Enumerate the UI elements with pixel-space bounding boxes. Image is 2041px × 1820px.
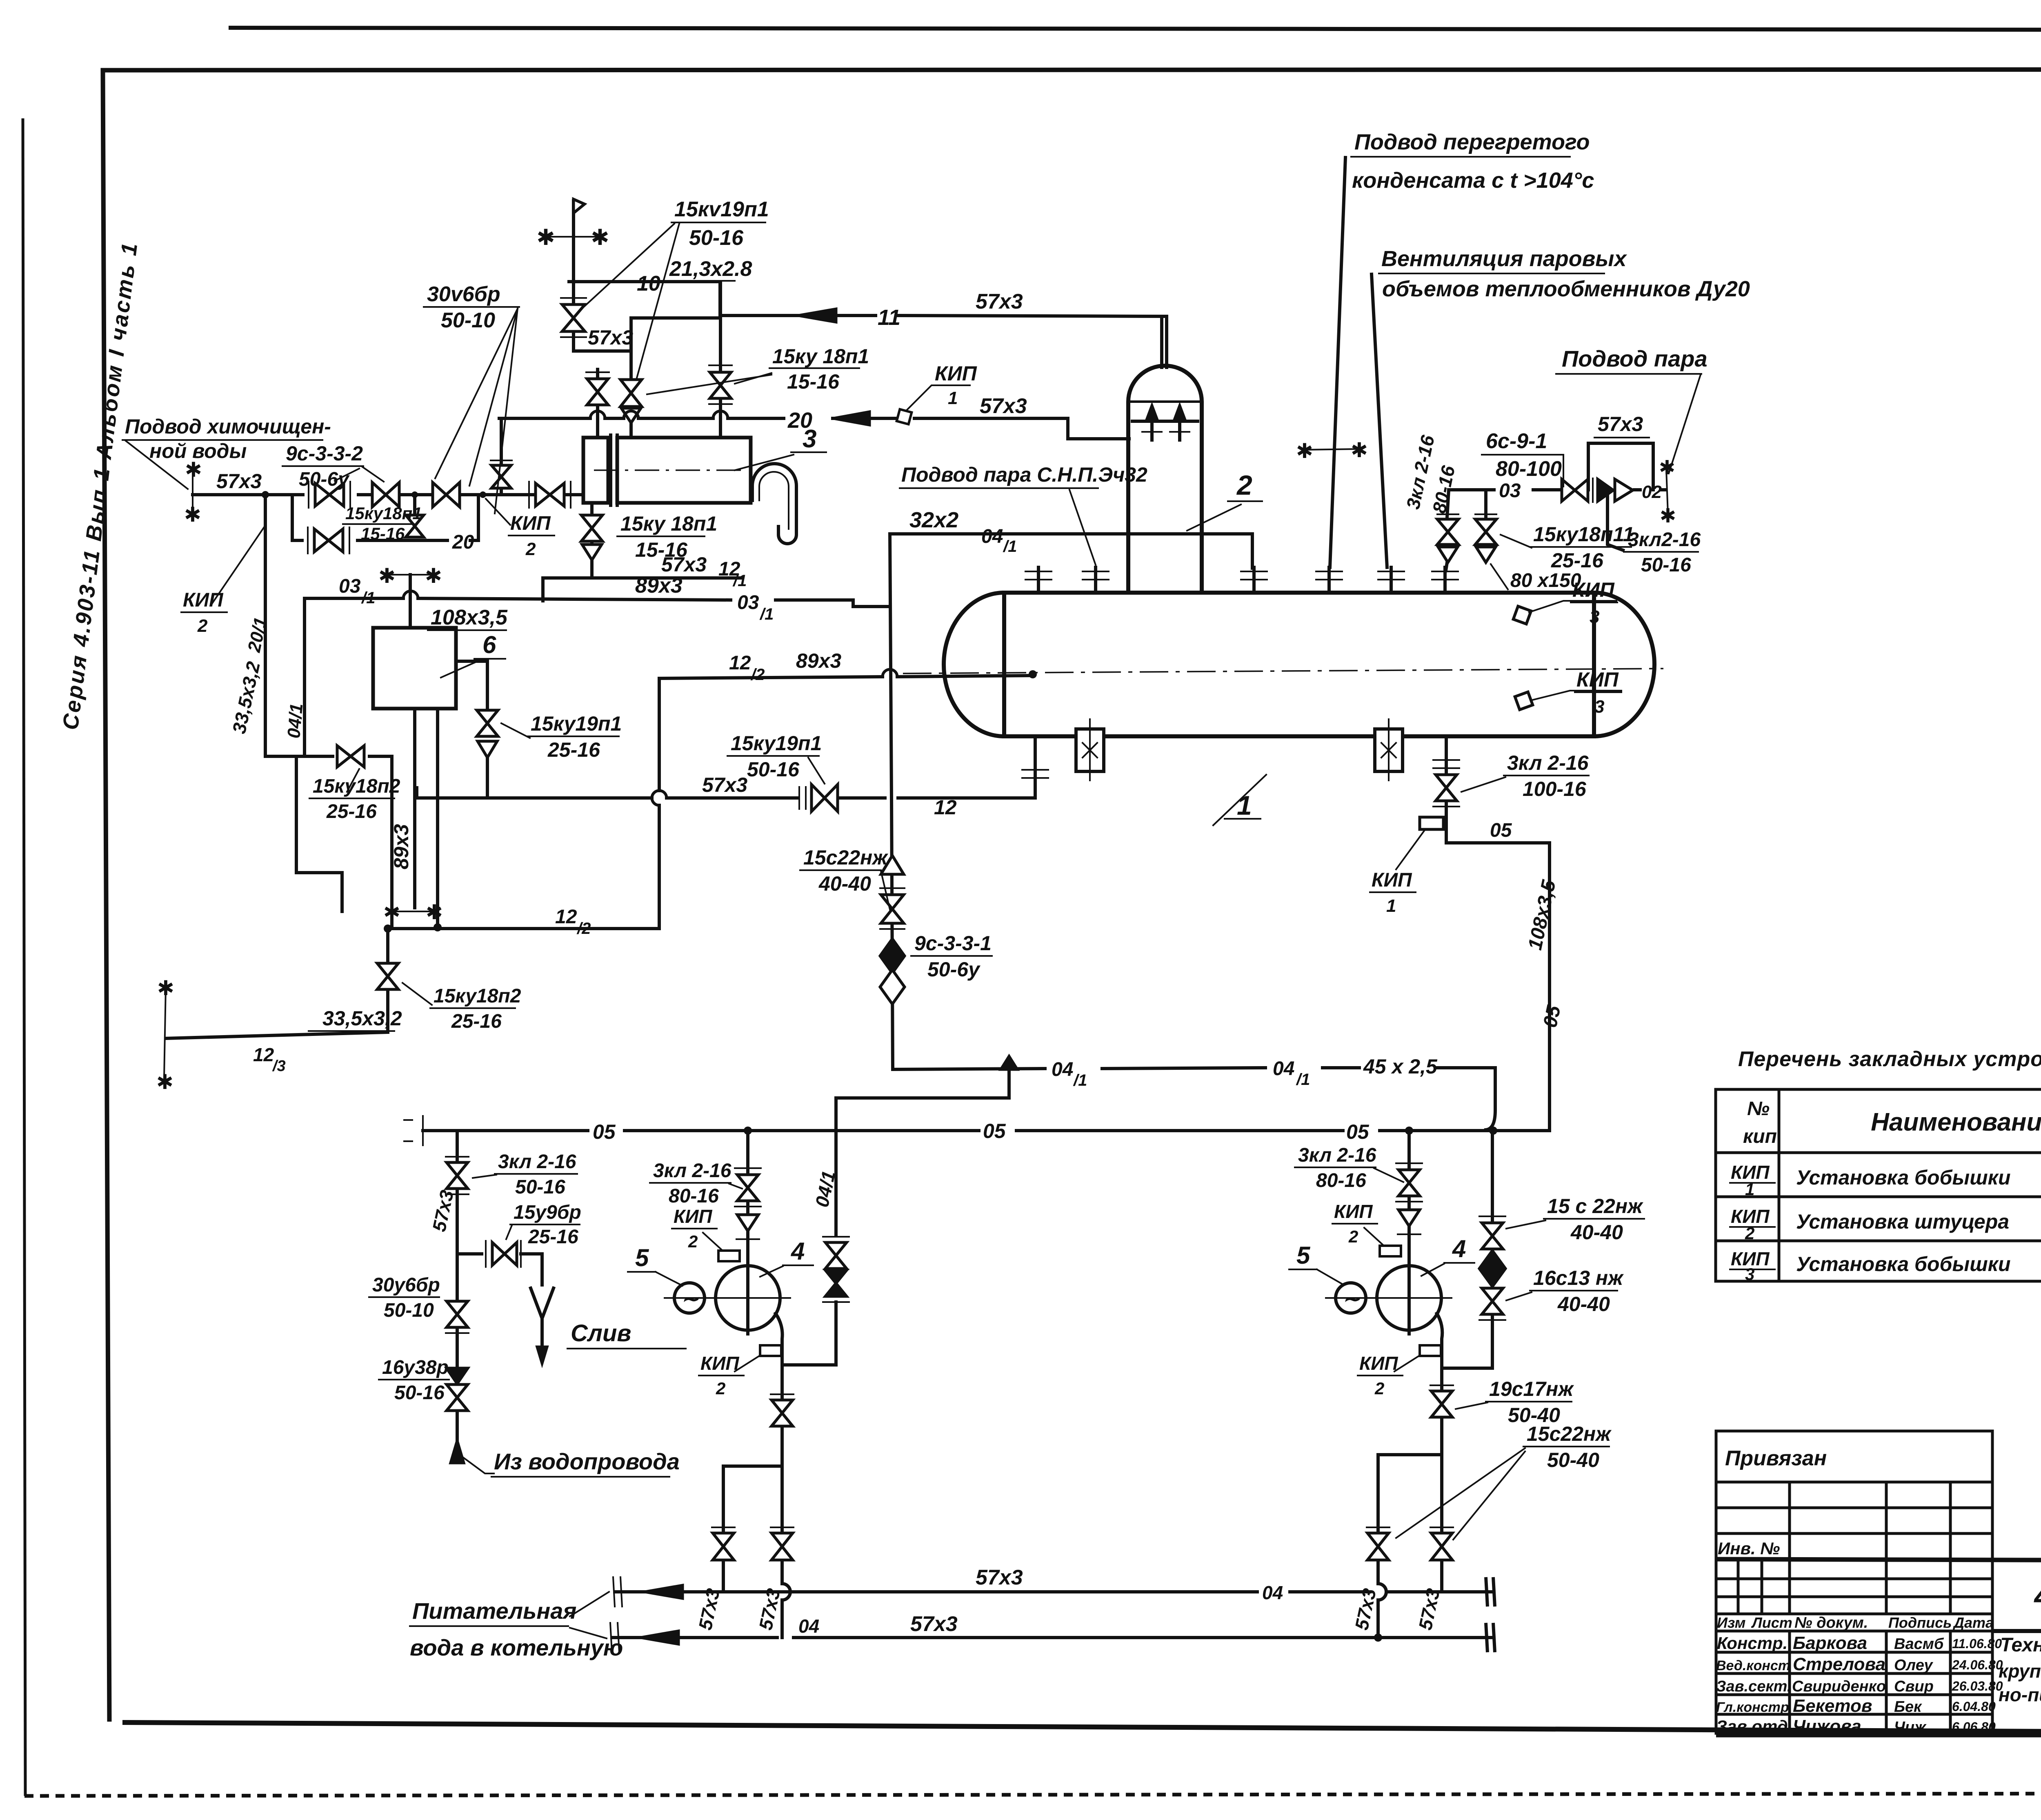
svg-text:03: 03 (737, 592, 759, 613)
svg-text:2: 2 (1374, 1379, 1384, 1398)
svg-text:/1: /1 (1296, 1071, 1310, 1089)
superheated condensate leader (1330, 130, 1594, 567)
svg-text:✱: ✱ (426, 901, 443, 924)
label 15ku18p1/15-16 lower (617, 512, 717, 561)
vent column 2 (1128, 366, 1202, 593)
svg-text:15ку18п2: 15ку18п2 (313, 776, 400, 797)
svg-text:КИП: КИП (510, 513, 551, 534)
svg-text:Бекетов: Бекетов (1793, 1696, 1872, 1716)
pos 5 right (1289, 1242, 1344, 1285)
svg-text:Баркова: Баркова (1793, 1633, 1867, 1653)
svg-text:15с22нж: 15с22нж (803, 846, 888, 869)
57x3 jumper to hx nozzle2 (574, 326, 633, 351)
label 15ku18p2/25-16 lower (402, 983, 521, 1032)
svg-text:80-16: 80-16 (1316, 1170, 1366, 1191)
svg-text:89х3: 89х3 (796, 649, 841, 672)
svg-text:03: 03 (1499, 480, 1521, 502)
svg-text:04: 04 (981, 526, 1003, 547)
svg-text:50-40: 50-40 (1547, 1449, 1599, 1471)
svg-text:Вед.конст: Вед.конст (1716, 1658, 1790, 1673)
rotated label 3kl2-16/80-16 (1402, 433, 1459, 515)
valve cluster (1562, 479, 1588, 501)
svg-text:Наименование: Наименование (1871, 1108, 2041, 1136)
line 03/1 89x3 (305, 574, 890, 623)
right motor 5 (1336, 1283, 1366, 1313)
svg-text:✱: ✱ (1296, 440, 1313, 462)
label 6s-9-1/80-100 (1482, 429, 1563, 487)
svg-text:Бек: Бек (1894, 1698, 1922, 1716)
svg-text:КИП: КИП (674, 1206, 712, 1227)
svg-text:11: 11 (878, 305, 900, 330)
column sparger right (1170, 406, 1189, 440)
svg-text:04: 04 (1262, 1582, 1283, 1603)
svg-text:108х3,5: 108х3,5 (431, 606, 508, 629)
89x3 twin downcomers from box6 (383, 709, 443, 931)
label 80x150 (1491, 564, 1581, 593)
line 04/1 discharge header (893, 1055, 1495, 1130)
title block (1716, 1431, 2041, 1736)
svg-text:2: 2 (197, 616, 208, 636)
left pump discharge (771, 1313, 794, 1533)
svg-text:Подвод химочищен-: Подвод химочищен- (125, 415, 331, 438)
svg-text:/1: /1 (759, 605, 774, 623)
recirculation with 15s22nj 16s13nj (1442, 1131, 1505, 1368)
svg-text:/1: /1 (1003, 538, 1017, 556)
line 32x2 04/1 to vessel (890, 508, 1252, 568)
svg-text:КИП: КИП (700, 1353, 739, 1374)
hx nozzle 3 riser (709, 282, 732, 438)
svg-text:15 с 22нж: 15 с 22нж (1547, 1195, 1643, 1218)
feedwater line lower 04 (610, 1612, 1495, 1652)
svg-text:24.06.80: 24.06.80 (1952, 1658, 2003, 1672)
vessel bottom right drain valve (1433, 736, 1459, 843)
svg-text:05: 05 (983, 1120, 1006, 1142)
sheet outer border bottom dashed (24, 1793, 2041, 1796)
flanged check valve (308, 482, 309, 508)
svg-text:40-40: 40-40 (1557, 1293, 1610, 1316)
svg-text:Питательная: Питательная (412, 1598, 576, 1624)
line 20 to column (499, 394, 1129, 439)
svg-text:Дата: Дата (1952, 1614, 1994, 1631)
svg-text:Технологическая схема: Технологическая схема (2000, 1634, 2041, 1656)
svg-text:✱: ✱ (591, 225, 609, 250)
svg-text:1: 1 (1237, 790, 1252, 820)
svg-text:89х3: 89х3 (635, 574, 683, 598)
svg-text:33,5х3,2: 33,5х3,2 (322, 1007, 402, 1030)
svg-text:04: 04 (1273, 1058, 1294, 1080)
svg-text:КИП: КИП (1576, 668, 1619, 691)
svg-text:вода в котельную: вода в котельную (410, 1635, 623, 1660)
svg-text:15ку 18п1: 15ку 18п1 (772, 345, 869, 368)
svg-text:6: 6 (482, 631, 496, 658)
svg-text:25-16: 25-16 (451, 1011, 502, 1032)
svg-text:Подвод пара: Подвод пара (1562, 346, 1708, 371)
svg-text:16у38р: 16у38р (382, 1357, 449, 1378)
svg-text:2: 2 (716, 1379, 725, 1398)
svg-text:ной воды: ной воды (149, 440, 247, 462)
label 15s22nj/40-40 right (1506, 1195, 1644, 1244)
svg-text:Свир: Свир (1894, 1678, 1934, 1695)
small grid under inv (1716, 1578, 1992, 1580)
svg-text:57х3: 57х3 (702, 773, 747, 796)
svg-text:30у6бр: 30у6бр (372, 1274, 440, 1296)
svg-text:9с-3-3-2: 9с-3-3-2 (286, 442, 363, 465)
saddle support left (1076, 719, 1104, 780)
svg-text:15ку19п1: 15ку19п1 (531, 712, 622, 735)
svg-text:16с13 нж: 16с13 нж (1533, 1267, 1624, 1289)
safety drain stack 9s-3-3-1 (880, 798, 905, 1069)
svg-text:5: 5 (635, 1244, 649, 1271)
perechen table (1716, 1047, 2041, 1284)
svg-text:12: 12 (253, 1044, 274, 1065)
vessel top nozzle e (1378, 567, 1404, 593)
svg-text:03: 03 (339, 576, 361, 597)
box 6 cooler (373, 606, 508, 709)
KIP1 sensor on drain (1370, 817, 1443, 916)
svg-text:50-16: 50-16 (394, 1382, 445, 1404)
svg-text:4: 4 (1452, 1235, 1466, 1262)
privyazan box (1716, 1431, 1992, 1559)
svg-text:3кл2-16: 3кл2-16 (1628, 529, 1701, 551)
label 9s-3-3-2 (282, 442, 384, 490)
svg-text:✱: ✱ (156, 1071, 173, 1093)
steam inlet line 02/03 (1449, 413, 1676, 527)
svg-text:15-16: 15-16 (787, 370, 840, 393)
svg-text:57х3: 57х3 (910, 1612, 958, 1636)
svg-text:50-6у: 50-6у (927, 958, 980, 981)
svg-text:57х3: 57х3 (1598, 413, 1643, 436)
svg-text:1: 1 (948, 388, 958, 408)
svg-text:12: 12 (555, 906, 577, 928)
box6 vent riser with boundary (378, 564, 442, 628)
svg-text:15ку18п11: 15ку18п11 (1533, 523, 1634, 546)
svg-text:15кv19п1: 15кv19п1 (674, 198, 769, 221)
svg-text:2: 2 (688, 1232, 698, 1251)
sliv side valve and funnel (457, 1241, 686, 1363)
svg-text:конденсата с t >104°с: конденсата с t >104°с (1352, 168, 1594, 193)
left motor 5 (674, 1283, 705, 1313)
left pump 4 (665, 1266, 790, 1334)
vessel top nozzle c (1241, 567, 1267, 593)
svg-text:3кл 2-16: 3кл 2-16 (1298, 1144, 1376, 1166)
saddle support right (1375, 719, 1403, 780)
04/1 branch to pump (811, 1069, 1009, 1234)
pos 3 designator (735, 425, 826, 470)
feedwater line upper 04 (613, 1566, 1495, 1607)
vessel top nozzle b (1083, 567, 1109, 593)
deaerator tank 1 (903, 593, 1663, 736)
svg-text:10: 10 (637, 272, 660, 296)
svg-text:Установка бобышки: Установка бобышки (1796, 1253, 2011, 1276)
tee small valve down (411, 491, 418, 498)
svg-text:Олеу: Олеу (1894, 1657, 1933, 1674)
svg-text:КИП: КИП (935, 362, 977, 385)
svg-text:Подвод перегретого: Подвод перегретого (1354, 130, 1590, 154)
svg-text:Свириденко: Свириденко (1792, 1678, 1886, 1695)
svg-text:15ку19п1: 15ку19п1 (731, 732, 822, 755)
svg-text:∼: ∼ (1342, 1287, 1361, 1311)
svg-text:4: 4 (791, 1238, 805, 1265)
svg-text:✱: ✱ (536, 225, 555, 250)
svg-text:✱: ✱ (1351, 439, 1368, 462)
podvod para SNP label (900, 463, 1147, 565)
label 9s-3-3-1 (911, 932, 992, 981)
svg-text:3кл 2-16: 3кл 2-16 (653, 1160, 731, 1182)
svg-text:15ку 18п1: 15ку 18п1 (620, 512, 717, 535)
svg-text:крупно-блочной деаэрацион: крупно-блочной деаэрацион (1999, 1660, 2041, 1682)
svg-text:21,3х2.8: 21,3х2.8 (669, 257, 752, 281)
label 15u9br/25-16 (506, 1202, 581, 1248)
label 16s13nj/40-40 (1506, 1267, 1624, 1316)
vessel top nozzle a (1025, 567, 1052, 593)
svg-text:2: 2 (1348, 1227, 1358, 1246)
flanged valve pair at hx inlet (528, 482, 530, 508)
svg-text:Слив: Слив (571, 1320, 631, 1347)
left pump suction drop (735, 1131, 761, 1266)
svg-text:Зав.сект.: Зав.сект. (1716, 1678, 1791, 1695)
hx nozzle 1 riser (586, 369, 609, 438)
line 12 slив main (417, 773, 1035, 819)
vessel drain nozzle to line 12 (1022, 736, 1048, 798)
sheet outer border top (229, 28, 2041, 30)
svg-text:Гл.констр: Гл.констр (1716, 1700, 1789, 1715)
vessel top nozzle f (1432, 567, 1458, 593)
svg-text:04/1: 04/1 (284, 702, 307, 739)
svg-text:Васмб: Васмб (1894, 1636, 1944, 1653)
label 15ku18p1 small (343, 504, 422, 543)
svg-text:04: 04 (1052, 1059, 1073, 1080)
label 15ku18p2/25-16 upper (309, 769, 400, 822)
riser 12/2 (652, 678, 659, 929)
pos 6 designator (441, 631, 505, 678)
svg-text:2: 2 (1236, 470, 1252, 501)
pump feed check valves left (782, 1237, 849, 1365)
column sparger left (1142, 406, 1162, 440)
svg-text:1: 1 (1745, 1180, 1754, 1199)
svg-text:/3: /3 (272, 1058, 286, 1075)
right pump twin drops (1351, 1455, 1453, 1638)
boundary mark (1666, 469, 1668, 513)
sliv lower valves (446, 1290, 469, 1463)
pos 2 designator (1187, 470, 1262, 531)
KIP3 sensor upper on right head (1513, 578, 1617, 627)
svg-text:57х3: 57х3 (980, 394, 1027, 418)
svg-text:57х3: 57х3 (976, 290, 1023, 313)
label 15ku18p1/15-16 upper (647, 345, 869, 394)
pos 1 designator (1213, 775, 1266, 825)
exchanger U loop (752, 464, 796, 544)
04/1 feed drop to valve line (284, 598, 307, 755)
svg-text:✱: ✱ (425, 564, 442, 587)
column center vent pipe (1162, 316, 1167, 367)
boundary on condensate lines (1296, 439, 1368, 462)
ventilation leader (1372, 247, 1750, 567)
left margin vertical text (58, 240, 142, 731)
svg-text:57х3: 57х3 (588, 326, 633, 349)
label 16u38r/50-16 (379, 1357, 449, 1404)
label 15s22nj/50-40 (1396, 1422, 1612, 1540)
svg-text:Из водопровода: Из водопровода (494, 1449, 680, 1474)
KIP1 tap on line 20 (897, 362, 977, 424)
label 15kv19p1/50-16 (584, 198, 769, 378)
sliv branch from 05 (428, 1131, 469, 1290)
KIP2 bottom right pump (1358, 1345, 1441, 1398)
svg-text:40-40: 40-40 (1570, 1221, 1623, 1244)
svg-text:но-питательной установ: но-питательной установ (1999, 1684, 2041, 1705)
gate valve (372, 482, 399, 507)
line 11 vapor (631, 290, 1165, 330)
svg-text:Привязан: Привязан (1725, 1447, 1827, 1470)
svg-text:05: 05 (1490, 820, 1512, 841)
suction header 05 (404, 1116, 1550, 1145)
label 3kl2-16/100-16 (1461, 751, 1589, 800)
svg-text:100-16: 100-16 (1523, 778, 1587, 800)
svg-text:Перечень закладных устройс: Перечень закладных устройств для средств… (1738, 1047, 2041, 1071)
svg-text:57х3: 57х3 (216, 470, 262, 493)
svg-text:№ докум.: № докум. (1794, 1614, 1868, 1631)
svg-text:12: 12 (934, 796, 957, 819)
svg-text:20: 20 (452, 531, 474, 553)
KIP2 label left low (181, 527, 265, 636)
svg-text:Подвод пара С.Н.П.Эч32: Подвод пара С.Н.П.Эч32 (901, 463, 1147, 486)
svg-text:12: 12 (729, 652, 751, 674)
svg-text:3кл 2-16: 3кл 2-16 (1507, 751, 1589, 774)
label 15ku19p1/50-16 on line 12 (727, 732, 825, 784)
svg-text:26.03.80: 26.03.80 (1952, 1679, 2003, 1693)
label 3kl2-16/80-16 left pump (650, 1160, 742, 1207)
svg-text:50-16: 50-16 (1641, 554, 1691, 576)
svg-text:Подпись: Подпись (1888, 1614, 1952, 1631)
signature rows (1716, 1651, 1992, 1654)
KIP2 top left pump (672, 1206, 740, 1261)
svg-text:15-16: 15-16 (361, 524, 405, 543)
svg-text:45 х 2,5: 45 х 2,5 (1363, 1055, 1438, 1078)
svg-text:/2: /2 (750, 666, 765, 684)
svg-text:2: 2 (1745, 1224, 1754, 1243)
svg-text:Изм: Изм (1717, 1614, 1745, 1631)
svg-text:3: 3 (1745, 1264, 1754, 1284)
pos 5 left (628, 1244, 683, 1286)
svg-text:3: 3 (1594, 697, 1604, 717)
svg-text:✱: ✱ (1660, 505, 1676, 527)
svg-text:2: 2 (525, 539, 536, 559)
box6 outlet valve 15ku19p1 (456, 661, 622, 798)
svg-text:3кл 2-16: 3кл 2-16 (498, 1151, 576, 1173)
svg-text:80-16: 80-16 (669, 1185, 719, 1207)
svg-text:Установка штуцера: Установка штуцера (1796, 1210, 2009, 1233)
svg-text:80-100: 80-100 (1496, 457, 1562, 481)
drop to 12/3 (156, 929, 402, 1093)
svg-text:15ку18п1: 15ку18п1 (345, 504, 422, 523)
label 3kl2-16/50-16 sliv (473, 1151, 577, 1198)
pos 4 left (760, 1238, 813, 1277)
hx nozzle 2 riser (620, 318, 642, 438)
svg-text:25-16: 25-16 (1551, 549, 1604, 572)
svg-text:✱: ✱ (157, 977, 174, 1000)
riser 108x3.5 from vessel drain (1446, 820, 1565, 1131)
main schematic (122, 130, 1750, 1660)
svg-text:Констр.: Констр. (1717, 1633, 1788, 1653)
svg-text:57х3: 57х3 (661, 553, 707, 576)
svg-text:4.903-11-В.1- 07: 4.903-11-В.1- 07 (2034, 1579, 2041, 1613)
right pump suction drop (1396, 1131, 1422, 1266)
svg-text:50-16: 50-16 (689, 226, 744, 250)
hx bottom drain valve (581, 503, 603, 578)
svg-text:КИП: КИП (1372, 869, 1412, 891)
vent stack with pennant (536, 199, 609, 351)
svg-text:Установка бобышки: Установка бобышки (1796, 1166, 2011, 1189)
label 19s17nj/50-40 (1456, 1378, 1574, 1427)
svg-text:Лист: Лист (1751, 1614, 1792, 1631)
podvod himochishchennoy label (122, 415, 331, 489)
feedwater to boiler label (410, 1592, 623, 1660)
svg-text:80 х150: 80 х150 (1510, 570, 1581, 591)
sheet outer border left (23, 118, 25, 1796)
svg-text:04: 04 (798, 1616, 819, 1637)
svg-text:Стрелова: Стрелова (1793, 1654, 1885, 1674)
svg-text:5: 5 (1296, 1242, 1311, 1269)
title block bottom (1716, 1732, 2041, 1738)
connector 20-line to inlet with valve (491, 418, 512, 495)
svg-text:40-40: 40-40 (818, 872, 871, 895)
vessel top nozzle d (1316, 567, 1342, 593)
svg-text:кип: кип (1743, 1126, 1777, 1147)
svg-text:Инв. №: Инв. № (1718, 1539, 1780, 1558)
svg-text:объемов теплообменников Ду20: объемов теплообменников Ду20 (1382, 277, 1750, 301)
inlet lower line 20 (292, 495, 478, 553)
svg-text:50-10: 50-10 (441, 309, 495, 332)
label 15ku18p11/25-16 (1501, 523, 1634, 572)
pos 4 right (1421, 1235, 1474, 1276)
left utility loop (228, 491, 392, 929)
KIP2 label at inlet junction (486, 499, 554, 559)
label 30u6br/50-10 sliv (369, 1274, 440, 1321)
line 12/2 lower (384, 906, 659, 938)
svg-text:1: 1 (1386, 896, 1396, 916)
KIP2 top right pump (1332, 1201, 1401, 1256)
svg-text:05: 05 (593, 1120, 616, 1143)
svg-text:КИП: КИП (1359, 1353, 1398, 1374)
podvod para label (1556, 346, 1708, 473)
right pump 4 (1326, 1266, 1452, 1334)
steam drops to vessel nozzles (1437, 490, 1496, 571)
left pump twin drops (694, 1466, 794, 1638)
svg-text:11.06.80: 11.06.80 (1952, 1636, 2002, 1651)
svg-text:57х3: 57х3 (976, 1566, 1023, 1589)
svg-text:30v6бр: 30v6бр (427, 282, 500, 306)
svg-text:КИП: КИП (1334, 1201, 1373, 1222)
svg-text:25-16: 25-16 (547, 738, 600, 761)
svg-text:6с-9-1: 6с-9-1 (1486, 429, 1547, 453)
left inner loop (296, 756, 342, 911)
svg-text:50-16: 50-16 (747, 758, 800, 781)
label 15s22nj/40-40 left (800, 846, 890, 909)
svg-text:25-16: 25-16 (528, 1226, 578, 1248)
second valve (433, 482, 460, 507)
line 10 (569, 257, 752, 316)
svg-text:/2: /2 (576, 920, 591, 938)
KIP2 bottom left pump (699, 1345, 781, 1398)
line 12/2 upper (659, 649, 1033, 684)
svg-text:15у9бр: 15у9бр (514, 1202, 581, 1223)
label 3kl2-16/80-16 right pump (1295, 1144, 1403, 1191)
svg-text:19с17нж: 19с17нж (1489, 1378, 1574, 1400)
svg-text:9с-3-3-1: 9с-3-3-1 (914, 932, 992, 955)
svg-text:КИП: КИП (183, 589, 224, 611)
svg-text:32х2: 32х2 (909, 508, 958, 532)
svg-text:50-10: 50-10 (384, 1300, 434, 1321)
svg-text:25-16: 25-16 (326, 801, 377, 822)
